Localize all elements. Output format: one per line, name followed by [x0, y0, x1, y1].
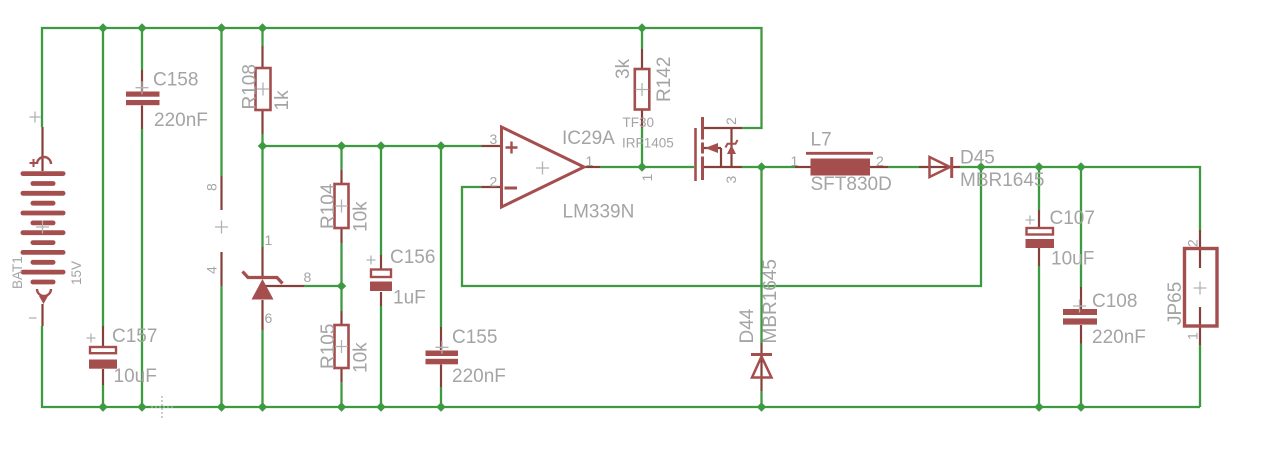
- R108 origin cross: [257, 83, 270, 96]
- svg-text:10k: 10k: [351, 342, 372, 373]
- svg-text:C157: C157: [112, 326, 157, 347]
- capacitor C156: [370, 255, 392, 306]
- wire R104 top stub: [340, 146, 342, 170]
- svg-text:10k: 10k: [351, 201, 372, 232]
- svg-text:1: 1: [265, 232, 273, 248]
- wire C156 bottom: [380, 306, 382, 407]
- wire feedback op-amp pin 2 loop: [462, 167, 981, 286]
- capacitor C108: [1063, 287, 1097, 344]
- wire C155 top: [440, 146, 442, 327]
- svg-text:LM339N: LM339N: [563, 202, 635, 223]
- junction ground rail at D44: [757, 402, 766, 411]
- svg-text:R108: R108: [240, 64, 261, 109]
- junction ground rail at C155: [436, 402, 445, 411]
- svg-text:R104: R104: [318, 183, 339, 229]
- wire R104 bottom to node: [340, 243, 342, 311]
- battery origin cross: [36, 221, 49, 234]
- svg-text:1k: 1k: [272, 90, 293, 111]
- svg-text:BAT1: BAT1: [10, 256, 25, 289]
- junction ground rail at C108: [1076, 402, 1085, 411]
- wire mid rail to op-amp pin 3: [263, 145, 482, 147]
- capacitor C158: [126, 70, 160, 129]
- junction output node at C108: [1076, 162, 1085, 171]
- R104 origin cross: [335, 200, 348, 213]
- wire C108 bottom: [1080, 344, 1082, 408]
- wire R105 bottom: [340, 382, 342, 407]
- R142 origin cross: [636, 83, 649, 96]
- wire R108 bottom to zener D top: [261, 134, 263, 247]
- svg-text:L7: L7: [811, 130, 832, 151]
- svg-text:8: 8: [204, 183, 220, 191]
- diode D45 MBR1645: [919, 157, 960, 178]
- wire C157 branch top: [102, 28, 104, 326]
- junction output wire at MOSFET source: [757, 162, 766, 171]
- junction ground rail at C107: [1034, 402, 1043, 411]
- inductor L7 SFT830D: [795, 153, 888, 175]
- svg-text:TF30: TF30: [623, 115, 655, 130]
- resistor R108: [256, 46, 271, 134]
- battery BAT1: [21, 127, 66, 326]
- C108 origin cross: [1073, 300, 1086, 313]
- svg-text:3: 3: [490, 131, 498, 147]
- wire D44 branch bottom: [760, 391, 762, 407]
- junction mid rail at R104: [337, 141, 346, 150]
- IC29 power pin 4: [220, 252, 222, 286]
- svg-text:2: 2: [876, 153, 884, 169]
- junction output wire at R142: [637, 162, 646, 171]
- junction top rail at R142: [637, 23, 646, 32]
- resistor R142: [635, 49, 650, 128]
- junction top rail at C157: [98, 23, 107, 32]
- svg-text:C108: C108: [1092, 291, 1137, 312]
- junction top rail at IC power: [217, 23, 226, 32]
- junction ground rail at C158: [137, 402, 146, 411]
- svg-text:220nF: 220nF: [154, 110, 208, 131]
- connector JP65: [1185, 230, 1218, 345]
- svg-text:1: 1: [586, 153, 594, 169]
- wire R142 top stub: [641, 28, 643, 49]
- zener diode (IC29 reference): [243, 247, 305, 330]
- svg-text:8: 8: [304, 269, 312, 285]
- wire +15V top rail with battery top lead and drop to MOSFET drain: [42, 28, 762, 128]
- wire C156 top: [380, 146, 382, 255]
- wire C155 bottom: [440, 387, 442, 407]
- svg-text:C107: C107: [1050, 208, 1095, 229]
- svg-text:10uF: 10uF: [114, 366, 157, 387]
- op-amp IC29A LM339N: [482, 127, 601, 207]
- svg-text:IC29A: IC29A: [562, 128, 615, 149]
- junction top rail at R108: [258, 23, 267, 32]
- junction mid rail at R108: [258, 141, 267, 150]
- C156 polarity plus: [367, 256, 376, 265]
- svg-text:10uF: 10uF: [1051, 249, 1094, 270]
- wire zener pin 8 to divider node: [304, 285, 342, 287]
- sheet origin dotted cross: [151, 396, 173, 418]
- wire ground bottom rail: [42, 326, 1200, 407]
- wire IC power pin 8 branch: [220, 28, 222, 176]
- JP65 origin cross: [1194, 282, 1207, 295]
- C107 polarity plus: [1026, 216, 1035, 225]
- wire L7 to D45: [888, 166, 919, 168]
- junction ground rail at zener: [258, 402, 267, 411]
- svg-text:3k: 3k: [613, 58, 634, 79]
- junction output node at C107: [1034, 162, 1043, 171]
- svg-text:JP65: JP65: [1165, 282, 1186, 325]
- svg-text:MBR1645: MBR1645: [960, 170, 1045, 191]
- svg-text:4: 4: [204, 266, 220, 274]
- svg-text:2: 2: [490, 174, 498, 190]
- MOSFET TF30 IRF1405: [696, 117, 743, 181]
- wire zener bottom to ground rail: [261, 330, 263, 407]
- junction top rail at C158: [137, 23, 146, 32]
- wire D44 branch top: [760, 167, 762, 343]
- C157 polarity plus: [87, 334, 96, 343]
- svg-text:D45: D45: [960, 148, 995, 169]
- junction divider node R104 R105: [337, 281, 346, 290]
- R105 origin cross: [335, 340, 348, 353]
- wire op-amp output to MOSFET gate: [600, 166, 694, 168]
- resistor R104: [335, 170, 349, 243]
- svg-text:C156: C156: [390, 247, 435, 268]
- wire IC power pin 4 branch: [220, 286, 222, 407]
- junction ground rail at IC power: [217, 402, 226, 411]
- diode D44 MBR1645: [751, 343, 772, 391]
- svg-text:R105: R105: [318, 324, 339, 369]
- svg-text:1: 1: [639, 174, 655, 182]
- svg-text:1: 1: [791, 153, 799, 169]
- svg-text:3: 3: [723, 176, 739, 184]
- junction ground rail at R105: [337, 402, 346, 411]
- svg-text:2: 2: [723, 117, 739, 125]
- wire C107 bottom: [1038, 266, 1040, 407]
- capacitor C157: [89, 326, 117, 385]
- junction mid rail at C156: [376, 141, 385, 150]
- wire C108 top: [1080, 167, 1082, 287]
- svg-text:C155: C155: [452, 327, 497, 348]
- svg-text:15V: 15V: [69, 261, 84, 285]
- resistor R105: [335, 311, 349, 382]
- junction ground rail at C156: [376, 402, 385, 411]
- wire D45 cathode output node to JP65: [960, 167, 1200, 230]
- svg-text:2: 2: [1185, 239, 1201, 247]
- junction ground rail at C157: [98, 402, 107, 411]
- C155 origin cross: [436, 341, 449, 354]
- wire JP65 bottom: [1199, 345, 1201, 407]
- svg-text:IRF1405: IRF1405: [622, 136, 674, 151]
- wire C158 branch bottom: [141, 129, 143, 407]
- battery minus terminal label: [29, 317, 37, 319]
- svg-text:220nF: 220nF: [452, 366, 506, 387]
- battery plus terminal label: [30, 112, 41, 123]
- junction mid rail at C155: [436, 141, 445, 150]
- wire C107 top: [1038, 167, 1040, 210]
- wire MOSFET source to L7: [742, 166, 795, 168]
- junction output node at feedback: [976, 162, 985, 171]
- capacitor C107: [1026, 210, 1055, 266]
- svg-text:SFT830D: SFT830D: [811, 174, 892, 195]
- IC29 power pin 8: [220, 176, 222, 210]
- capacitor C155: [426, 327, 459, 387]
- op-amp origin cross: [536, 162, 549, 175]
- wire R108 top stub: [261, 28, 263, 46]
- IC29 power origin cross: [215, 221, 228, 234]
- svg-text:220nF: 220nF: [1092, 327, 1146, 348]
- svg-text:C158: C158: [153, 70, 198, 91]
- svg-text:1uF: 1uF: [393, 288, 426, 309]
- svg-text:D44: D44: [737, 308, 758, 343]
- wire R142 bottom to output wire: [641, 128, 643, 168]
- svg-text:6: 6: [265, 310, 273, 326]
- svg-text:R142: R142: [654, 57, 675, 102]
- wire C157 branch bottom: [102, 385, 104, 407]
- C158 origin cross: [136, 81, 149, 94]
- svg-text:MBR1645: MBR1645: [760, 259, 781, 344]
- wire C158 branch top: [141, 28, 143, 70]
- svg-text:1: 1: [1185, 332, 1201, 340]
